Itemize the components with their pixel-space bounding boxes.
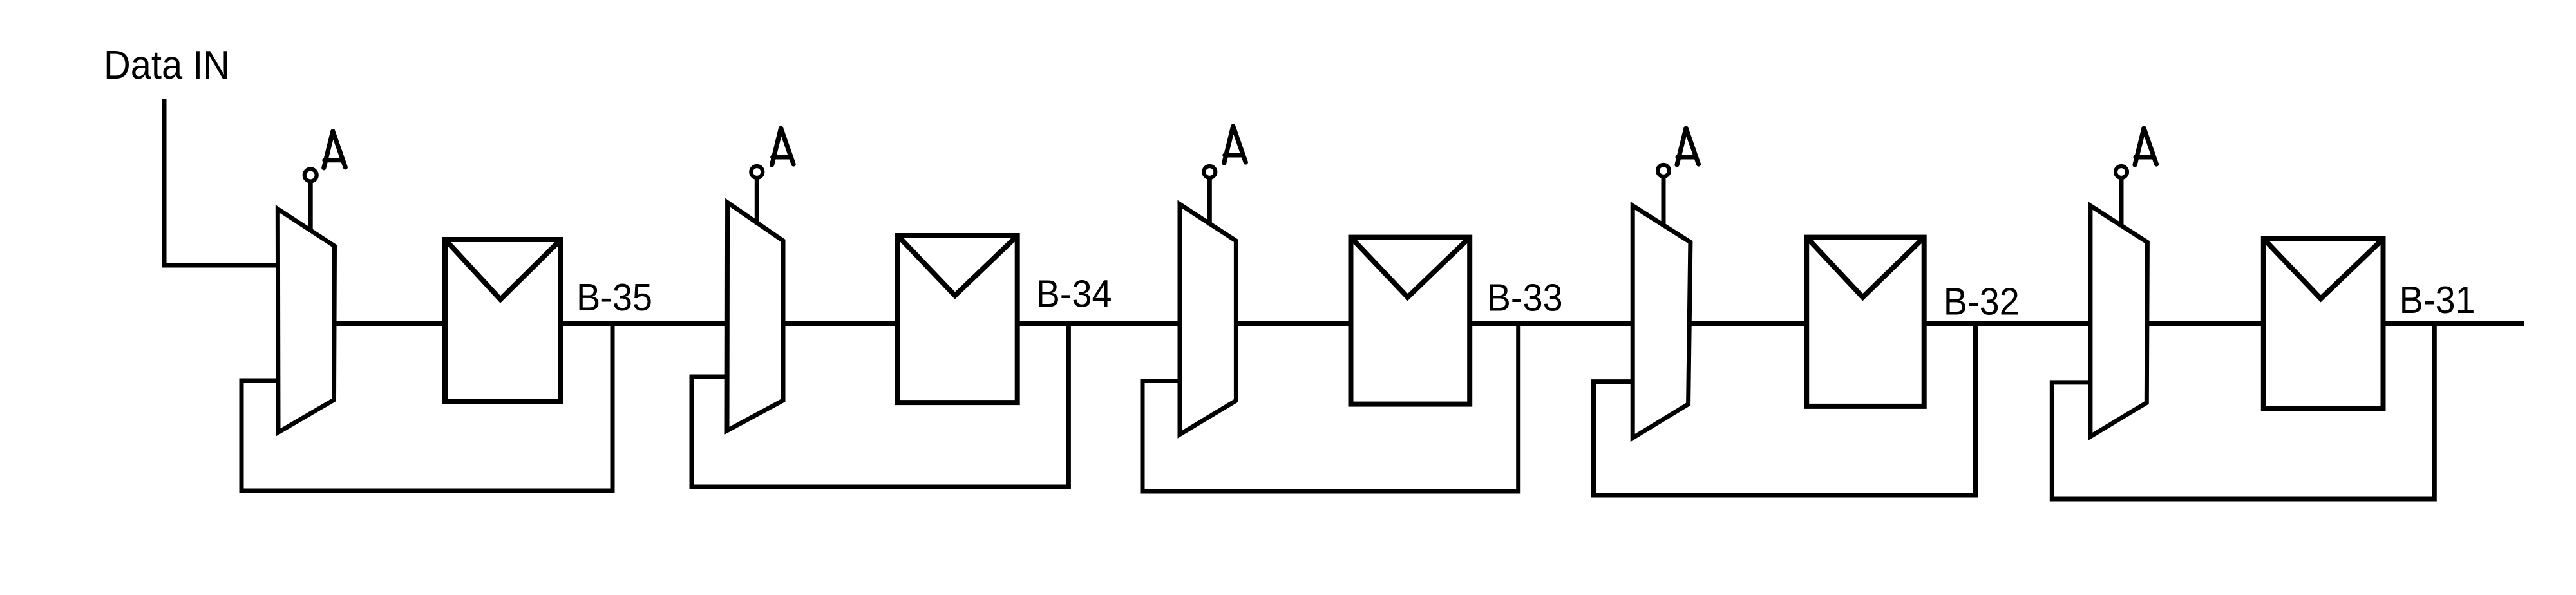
wire B-33 output to MUX4 bbox=[1470, 321, 1633, 326]
wire B-32 output to MUX5 bbox=[1924, 321, 2090, 326]
clock chevron of register B-34 bbox=[899, 237, 1016, 296]
register B-34 (flip-flop box) bbox=[898, 236, 1018, 402]
wire feedback loop of stage 5 (B-31 back to MUX5) bbox=[2052, 324, 2434, 500]
wire MUX2 output to register B-34 bbox=[783, 321, 898, 326]
select bubble MUX5 bbox=[2116, 166, 2127, 178]
register B-32 (flip-flop box) bbox=[1806, 238, 1924, 406]
select bubble MUX2 bbox=[751, 166, 762, 178]
wire MUX4 output to register B-32 bbox=[1690, 321, 1806, 326]
clock chevron of register B-33 bbox=[1352, 239, 1469, 297]
wire Data IN vertical bbox=[162, 99, 167, 265]
clock chevron of register B-32 bbox=[1808, 239, 1923, 297]
wire feedback loop of stage 1 (B-35 back to MUX1) bbox=[241, 324, 612, 491]
select bubble MUX1 bbox=[305, 169, 317, 182]
wire select A to MUX3 bbox=[1207, 178, 1212, 225]
wire Data IN horizontal into MUX1 bbox=[162, 263, 279, 268]
register B-35 (flip-flop box) bbox=[445, 240, 561, 402]
label A (select input of MUX2) bbox=[772, 128, 794, 165]
label A (select input of MUX4) bbox=[1677, 128, 1699, 165]
multiplexer MUX3 bbox=[1180, 204, 1236, 434]
svg-text:B-35: B-35 bbox=[576, 276, 652, 319]
wire select A to MUX2 bbox=[755, 178, 759, 225]
register B-31 (flip-flop box) bbox=[2264, 239, 2383, 408]
wire B-35 output to MUX2 bbox=[561, 321, 728, 326]
label A (select input of MUX5) bbox=[2135, 128, 2157, 165]
svg-text:B-32: B-32 bbox=[1944, 280, 2020, 323]
multiplexer MUX2 bbox=[727, 202, 783, 430]
wire MUX5 output to register B-31 bbox=[2147, 321, 2263, 326]
multiplexer MUX4 bbox=[1633, 205, 1690, 438]
wire feedback loop of stage 2 (B-34 back to MUX2) bbox=[692, 324, 1068, 487]
label A (select input of MUX3) bbox=[1224, 126, 1246, 163]
clock chevron of register B-35 bbox=[446, 241, 560, 299]
wire MUX1 output to register B-35 bbox=[335, 321, 446, 326]
svg-text:B-34: B-34 bbox=[1036, 272, 1112, 316]
wire B-31 final output bbox=[2383, 321, 2524, 326]
multiplexer MUX5 bbox=[2090, 205, 2148, 437]
wire feedback loop of stage 3 (B-33 back to MUX3) bbox=[1142, 324, 1519, 492]
select bubble MUX4 bbox=[1658, 165, 1669, 176]
wire select A to MUX1 bbox=[308, 182, 313, 232]
clock chevron of register B-31 bbox=[2265, 240, 2382, 299]
svg-text:B-31: B-31 bbox=[2400, 278, 2476, 321]
label A (select input of MUX1) bbox=[324, 131, 346, 168]
wire select A to MUX5 bbox=[2119, 178, 2124, 227]
wire B-34 output to MUX3 bbox=[1018, 321, 1180, 326]
wire feedback loop of stage 4 (B-32 back to MUX4) bbox=[1594, 324, 1976, 496]
svg-text:Data IN: Data IN bbox=[104, 43, 230, 88]
register B-33 (flip-flop box) bbox=[1351, 238, 1470, 404]
wire MUX3 output to register B-33 bbox=[1236, 321, 1350, 326]
wire select A to MUX4 bbox=[1662, 176, 1666, 227]
multiplexer MUX1 bbox=[278, 209, 334, 433]
svg-text:B-33: B-33 bbox=[1487, 276, 1563, 319]
select bubble MUX3 bbox=[1204, 166, 1215, 178]
